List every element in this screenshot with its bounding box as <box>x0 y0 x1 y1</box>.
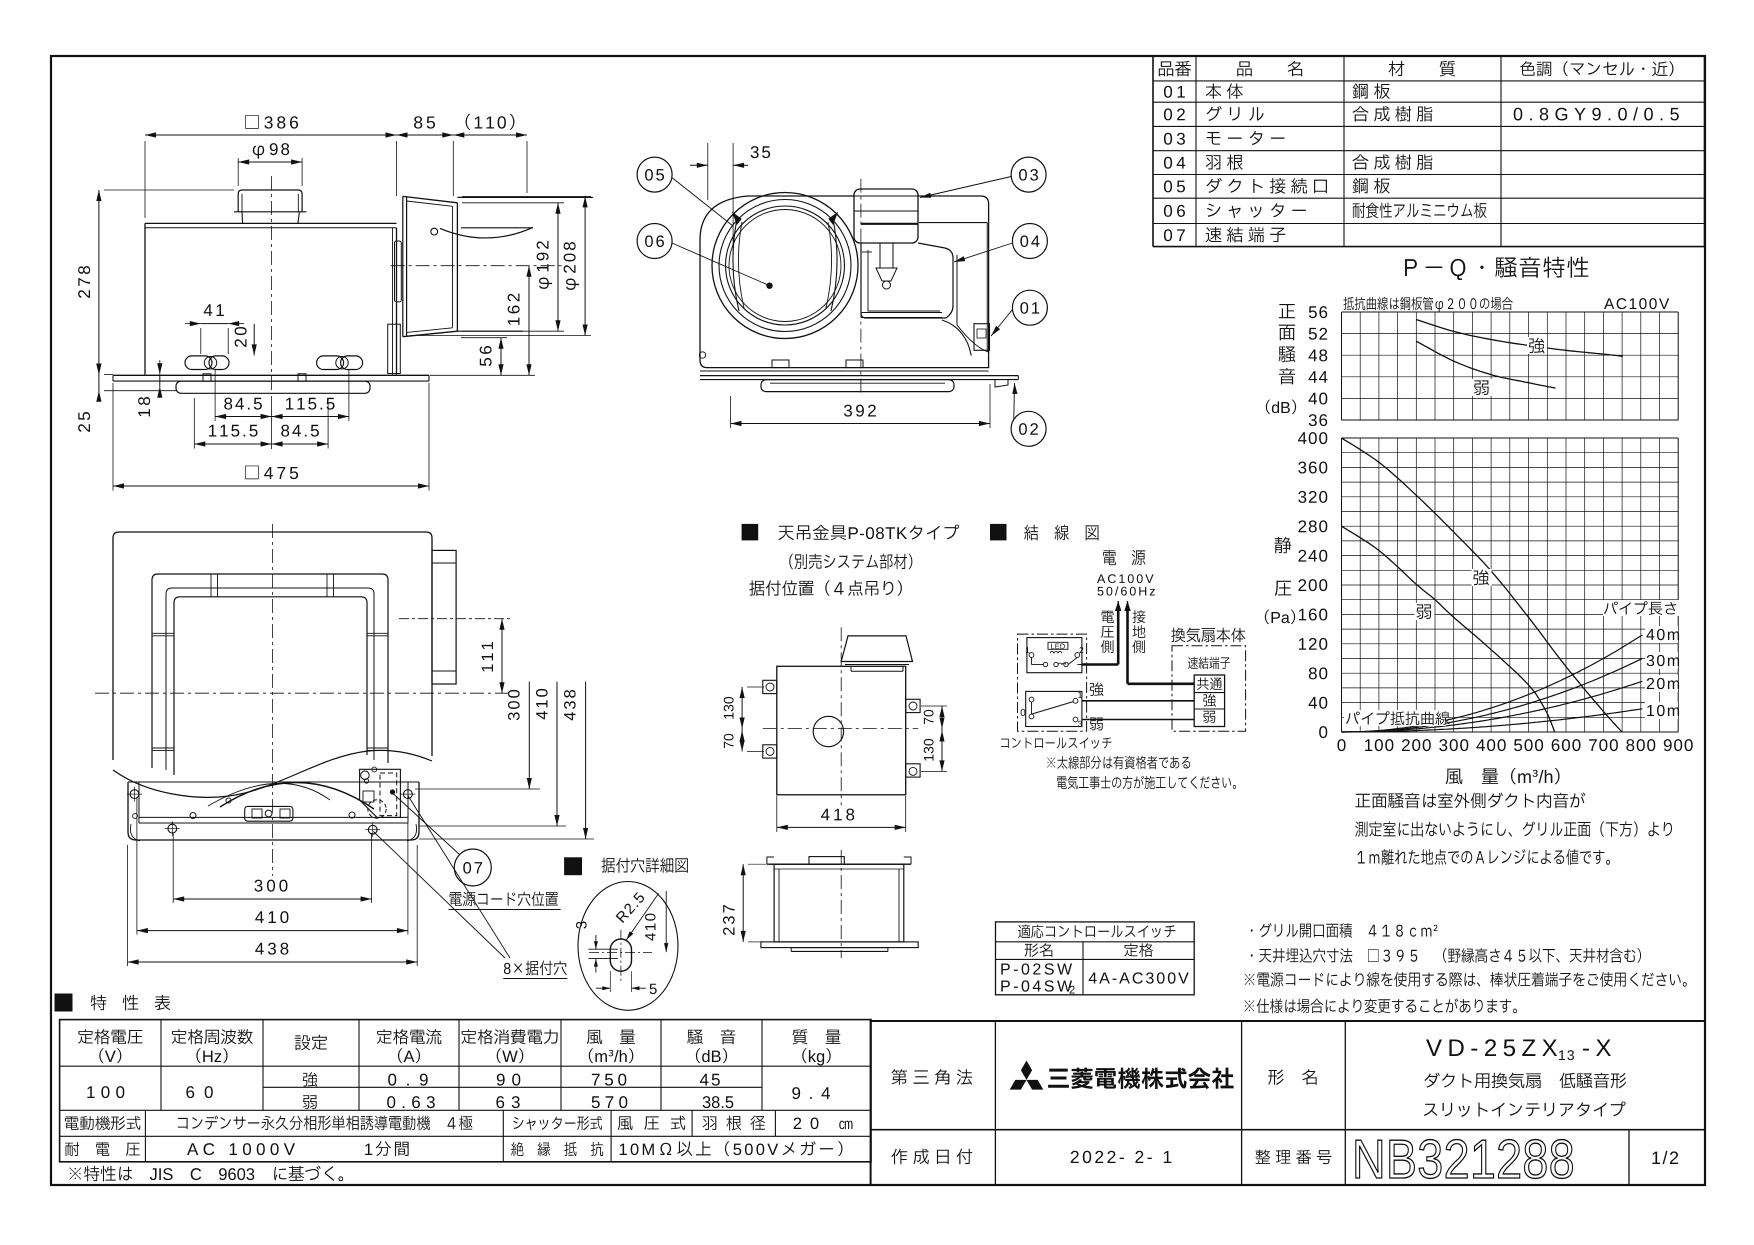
dimension 278 <box>98 190 100 375</box>
section body feet <box>772 360 789 368</box>
upper graph dB axis labels <box>1309 306 1327 318</box>
pipe length label halos <box>1645 626 1678 643</box>
title block page number <box>1652 1151 1678 1164</box>
front noise axis title (vertical) <box>1279 304 1295 318</box>
wiring fan body label <box>1171 628 1245 643</box>
upper noise graph grid <box>1342 311 1679 313</box>
title block frame <box>871 1021 1705 1185</box>
side view duct adapter (cone) <box>402 196 404 336</box>
parts row 02 グリル <box>1164 108 1185 120</box>
detail dimension 3 <box>595 935 597 949</box>
note grille opening area <box>1251 923 1438 938</box>
graph footnote text <box>1355 792 1585 808</box>
bottom view grille outer frame <box>152 574 388 768</box>
dimension 111 vertical <box>501 619 503 694</box>
characteristics table voltage row <box>144 1136 146 1162</box>
bracket centre hole <box>813 716 843 746</box>
lower graph curve labels <box>1472 569 1492 586</box>
section left small details <box>699 352 705 358</box>
section shutter flaps <box>733 219 739 311</box>
balloon 05 <box>637 157 672 192</box>
lower graph Pa axis labels <box>1298 432 1327 444</box>
wiring fan body dashed box <box>1172 646 1246 731</box>
title block date label <box>891 1149 972 1165</box>
bottom view corner hooks <box>130 824 140 841</box>
dimension (110) <box>453 134 527 136</box>
dimension 410 vertical <box>556 682 558 826</box>
dimension 115.5 / 84.5 <box>194 443 271 445</box>
detail ellipse <box>578 882 678 1011</box>
parts row 01 本体 <box>1164 86 1185 98</box>
bottom view duct stub <box>432 550 456 684</box>
detail dimension 5 <box>609 971 611 992</box>
wiring ground side label (vertical) <box>1132 610 1145 623</box>
lower graph curve strong <box>1342 438 1623 732</box>
dimension 84.5 / 115.5 <box>215 416 272 418</box>
side view body right-wall brackets <box>395 241 402 302</box>
lower graph curve weak <box>1342 526 1555 732</box>
detail slot hole <box>610 939 631 971</box>
wire ground to common terminal <box>1128 682 1195 685</box>
dimension 25 <box>98 375 100 391</box>
parts row 03 モーター <box>1164 133 1185 145</box>
parts list table <box>1152 56 1154 247</box>
Mitsubishi company name <box>1048 1068 1234 1089</box>
dimension 300 vertical <box>528 682 530 789</box>
pipe resistance curves 10m-40m <box>1342 709 1643 732</box>
section grille 02 <box>761 380 954 392</box>
control switch LED contacts <box>1029 653 1034 658</box>
side view connecting pipe reference (110) <box>457 196 593 198</box>
bracket side view centerline <box>840 850 842 958</box>
dimension 35 <box>690 164 708 166</box>
parts row 06 シャッター <box>1164 205 1185 217</box>
pipe length labels <box>1646 629 1679 640</box>
characteristics footnote JIS <box>69 1166 343 1182</box>
bottom view pipe centerline <box>399 618 512 620</box>
bracket duct adapter top view <box>841 636 912 662</box>
balloon 06 <box>637 224 672 259</box>
pipe resistance curve label <box>1346 711 1450 725</box>
dimension square386 <box>145 134 397 136</box>
label power cord hole position <box>450 892 558 907</box>
characteristics table header label <box>55 994 72 1011</box>
section terminal box 01 parts <box>974 324 990 351</box>
bottom view centre latch <box>245 806 293 821</box>
bottom view scroll arc <box>220 782 374 809</box>
dimension 300 horizontal <box>173 898 371 900</box>
bracket dimension 418 <box>777 826 906 828</box>
side view body casing <box>145 222 397 224</box>
section header: wiring diagram <box>991 524 1007 540</box>
balloon 01 <box>1012 290 1047 325</box>
note power cord terminal <box>1245 972 1687 987</box>
bracket dimension 70/130 right <box>941 706 943 771</box>
parts row 05 ダクト接続口 <box>1164 180 1185 192</box>
control switch LED unit box <box>1027 638 1082 673</box>
parts table headers <box>1159 61 1191 76</box>
graph note: resistance curve condition <box>1343 297 1512 312</box>
section bottom flange and ceiling plate <box>700 370 989 372</box>
balloon 02 <box>1011 411 1046 446</box>
lower graph flow axis labels <box>1337 739 1345 751</box>
control switch dashed box <box>1018 634 1087 731</box>
wiring voltage side label (vertical) <box>1102 611 1114 623</box>
bottom view break wave line <box>113 750 432 797</box>
dimension phi208 <box>584 196 586 335</box>
title block number label <box>1255 1150 1331 1165</box>
title block control number NB321288 (outline) <box>1356 1140 1573 1179</box>
bracket side view <box>767 863 911 865</box>
title block model number <box>1426 1039 1557 1056</box>
control switch selector contacts <box>1029 697 1034 702</box>
dimension 20 <box>253 324 255 355</box>
balloon 07 power cord hole <box>454 849 491 886</box>
bottom view screws <box>190 813 196 819</box>
graph label AC100V <box>1604 298 1669 309</box>
bracket hanging tabs left <box>763 680 777 693</box>
side view left mounting slots <box>185 356 212 370</box>
detail centerlines <box>589 952 652 954</box>
bottom view flange assembly <box>128 782 419 840</box>
upper graph curve strong <box>1416 320 1623 357</box>
flow axis title <box>1446 768 1560 784</box>
parts row 07 速結端子 <box>1164 229 1185 241</box>
upper graph curve labels <box>1527 337 1547 354</box>
side view top duct stub phi98 <box>238 190 302 212</box>
balloon 04 <box>1012 224 1047 259</box>
wire strong <box>1082 700 1194 702</box>
label 8x mounting holes with leaders <box>504 961 567 976</box>
bottom view grille slits <box>210 574 212 597</box>
dimension 162 <box>528 266 530 376</box>
wiring power supply label <box>1103 550 1145 565</box>
detail R2.5 label with leader <box>615 891 645 923</box>
section header: mounting hole detail <box>565 858 582 875</box>
bracket side view flange <box>761 942 918 948</box>
wiring strong/weak labels <box>1090 682 1104 696</box>
upper graph curve weak <box>1416 341 1555 388</box>
bracket top view square <box>777 666 906 795</box>
dimension 56 <box>500 338 502 376</box>
control switch label <box>1001 737 1112 748</box>
characteristics table motor row <box>144 1110 146 1136</box>
applicable control switch table <box>996 922 1195 995</box>
dimension phi192 <box>557 203 559 331</box>
note ceiling hole size <box>1251 948 1641 963</box>
control switch selector box <box>1026 691 1082 726</box>
bracket centerlines <box>763 728 918 730</box>
bottom view casing square with break <box>113 532 432 760</box>
dimension 85 <box>397 134 454 136</box>
dimension square475 <box>113 485 429 487</box>
parts row 04 羽根 <box>1164 157 1185 169</box>
lower PQ graph grid <box>1342 437 1679 439</box>
side view ceiling flange plate <box>113 374 429 376</box>
bottom view flange mounting holes <box>130 790 139 799</box>
wiring power arrows <box>1117 608 1120 665</box>
static pressure axis title (vertical) <box>1275 537 1292 554</box>
Mitsubishi three-diamond logo <box>1021 1061 1032 1080</box>
wiring note text <box>1047 756 1190 770</box>
bottom view horizontal centerline <box>95 692 512 694</box>
bracket dimension 130/70 left <box>741 687 743 751</box>
characteristics table headers <box>78 1029 142 1044</box>
side view right mounting slots <box>317 356 344 370</box>
dimension 438 horizontal <box>128 961 418 963</box>
section centerline <box>860 179 862 396</box>
dimension 18 <box>159 374 161 386</box>
side view shutter flap arc <box>440 227 533 238</box>
side view duct centerline <box>391 265 563 267</box>
detail dimension 410 reference <box>665 891 667 952</box>
section bellmouth circles <box>712 193 858 339</box>
wire weak <box>1082 719 1194 721</box>
dimension 438 vertical <box>585 682 587 839</box>
dimension 410 horizontal <box>137 930 408 932</box>
dimension 41 <box>201 323 228 325</box>
section scroll casing and blade 04 <box>861 243 953 318</box>
section body outline <box>700 196 989 368</box>
bracket dimension 237 <box>742 864 744 942</box>
section header: ceiling hanging bracket <box>742 524 758 540</box>
P-Q noise characteristics title <box>1405 257 1588 280</box>
section right interior wall <box>919 222 987 224</box>
title block third angle projection <box>891 1069 972 1085</box>
wiring terminal block <box>1194 675 1224 727</box>
side view vertical centerline <box>271 176 273 392</box>
bottom view grille inner panel <box>174 597 367 775</box>
balloon 03 <box>1011 157 1046 192</box>
title block model name label <box>1268 1069 1316 1085</box>
characteristics table data <box>87 1086 124 1098</box>
section motor 03 <box>854 189 918 243</box>
characteristics table <box>60 1020 871 1162</box>
dimension 392 <box>731 423 991 425</box>
wiring quick terminal label <box>1188 657 1230 669</box>
side view grille profile <box>176 381 370 393</box>
bottom view vertical centerline <box>271 524 273 876</box>
section motor shaft and hub <box>879 243 881 268</box>
wire voltage to control switch <box>1082 663 1118 666</box>
bracket hanging tabs right <box>906 699 920 712</box>
dimension phi98 <box>238 161 302 163</box>
bottom view terminal box area <box>360 769 401 817</box>
note specification change <box>1245 998 1517 1013</box>
